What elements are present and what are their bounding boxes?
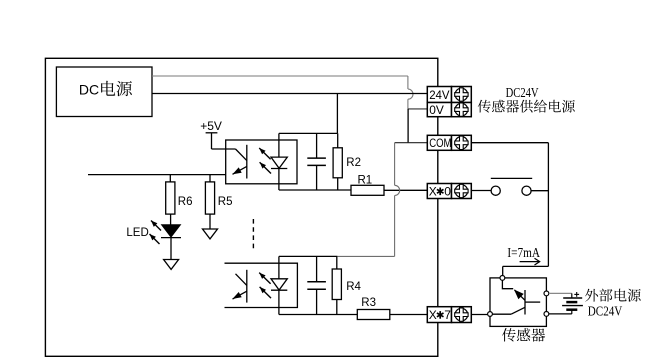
svg-text:24V: 24V	[429, 88, 449, 102]
terminal 0V	[427, 103, 471, 118]
terminal 24V	[427, 87, 471, 103]
opto-coupler U2 package	[225, 263, 298, 307]
wire 0V to COM link	[407, 109, 409, 143]
capacitor C2	[307, 256, 326, 314]
wire input line (left)	[88, 174, 226, 176]
node +5V	[200, 119, 235, 149]
label 传感器	[502, 328, 545, 342]
terminal X*7	[427, 307, 471, 323]
transistor U2 phototransistor	[233, 270, 247, 303]
diode U2 LED (opto input)	[271, 256, 287, 314]
resistor R1	[351, 175, 384, 196]
wire 0V supply line (upper, to 0V terminal)	[152, 76, 427, 109]
svg-text:DC24V: DC24V	[588, 305, 623, 320]
svg-text:R4: R4	[346, 281, 361, 293]
wire COM internal (to opto2 rail)	[337, 143, 427, 257]
svg-text:R6: R6	[178, 196, 193, 208]
wire X*7 input	[390, 314, 428, 316]
U2 light arrows	[259, 273, 271, 299]
svg-text:R1: R1	[358, 175, 373, 187]
wire opto1 top rail	[279, 132, 338, 134]
svg-text:R2: R2	[346, 157, 361, 169]
wire opto1 bottom rail	[279, 189, 351, 191]
svg-text:R5: R5	[218, 196, 233, 208]
terminal X*0	[427, 184, 471, 199]
LED indicator	[126, 221, 181, 260]
wire 24V rail branch down to opto 1	[336, 94, 338, 134]
diode U1 LED (opto input)	[271, 133, 287, 190]
DC power supply box DC电源	[56, 67, 152, 117]
svg-text:I=7mA: I=7mA	[507, 245, 540, 260]
svg-text:0V: 0V	[429, 103, 444, 117]
wire COM external	[471, 143, 548, 276]
wire opto2 top rail	[279, 255, 338, 257]
switch contact (on X*0)	[471, 178, 548, 195]
resistor R5	[205, 175, 232, 229]
wire X*7 external to sensor	[471, 314, 487, 316]
svg-text:X: X	[429, 184, 437, 198]
transistor U1 phototransistor	[233, 145, 247, 179]
svg-text:R3: R3	[361, 297, 376, 309]
label DC24V sensor supply	[478, 86, 575, 112]
wire X*0 input	[384, 189, 427, 191]
svg-text:0: 0	[444, 184, 451, 198]
wire opto2 bottom rail	[279, 314, 357, 316]
dashed line (repeated channels)	[252, 219, 254, 250]
svg-text:+5V: +5V	[200, 119, 222, 133]
U1 light arrows	[259, 148, 271, 174]
opto-coupler U1 package	[226, 140, 297, 184]
battery external DC24V	[549, 292, 583, 314]
svg-text:7: 7	[444, 308, 451, 322]
terminal COM	[427, 135, 471, 150]
svg-text:X: X	[429, 308, 437, 322]
svg-text:LED: LED	[126, 227, 148, 239]
ground (below LED)	[164, 260, 179, 270]
resistor R6	[166, 175, 193, 225]
resistor R4	[332, 256, 361, 314]
wire 24V supply line (lower, to 24V terminal)	[152, 93, 427, 95]
label I=7mA	[507, 245, 540, 260]
capacitor C1	[307, 133, 326, 190]
label 外部电源 DC24V	[585, 289, 641, 320]
sensor box	[490, 278, 546, 327]
node circles on sensor box	[488, 276, 549, 317]
current direction arrow	[520, 258, 540, 265]
svg-text:COM: COM	[429, 136, 451, 150]
PLC unit boundary	[45, 58, 437, 356]
ground (below R5)	[203, 229, 218, 239]
resistor R2	[333, 133, 361, 190]
svg-text:DC: DC	[79, 82, 99, 98]
transistor Q1 (sensor output)	[492, 280, 540, 314]
resistor R3	[357, 297, 390, 320]
svg-text:DC24V: DC24V	[506, 86, 539, 101]
